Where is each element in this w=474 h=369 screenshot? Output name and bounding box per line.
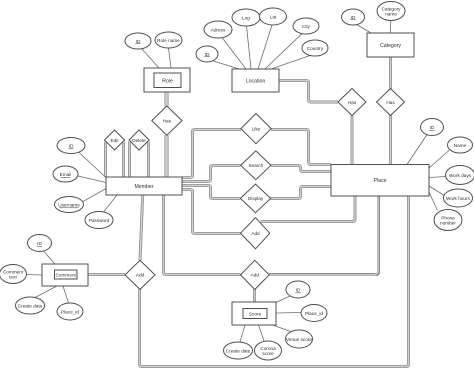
wire Has2-Place [351, 116, 354, 165]
attribute Score.PlaceId [301, 305, 327, 322]
relationship Add (Member-Place) [241, 218, 270, 249]
wire Search-Place [271, 166, 331, 172]
svg-text:Role: Role [162, 78, 173, 84]
svg-text:Like: Like [252, 126, 261, 131]
relationship Has (Category-Place) [377, 89, 405, 116]
svg-text:Delete: Delete [132, 138, 146, 143]
svg-text:ID: ID [37, 241, 42, 246]
attribute Score.CreateDate [224, 342, 253, 359]
svg-text:Place: Place [374, 178, 387, 184]
wire Place.Phone [429, 192, 438, 211]
wire Place.WorkHours [429, 186, 445, 196]
svg-text:Lat: Lat [270, 14, 277, 19]
entity Member [106, 177, 182, 195]
svg-text:Has: Has [348, 100, 357, 105]
wire Member.Password [104, 195, 118, 212]
svg-text:Search: Search [248, 163, 263, 168]
svg-text:ID: ID [296, 287, 301, 292]
svg-text:Has: Has [386, 100, 395, 105]
wire Comment.Text [27, 274, 43, 277]
svg-text:Add: Add [251, 273, 260, 278]
entity Category [367, 33, 414, 57]
attribute Score.ID [286, 281, 310, 298]
wire Member-Add1 [182, 190, 241, 234]
wire Delete loop left [128, 142, 131, 178]
svg-text:name: name [385, 11, 397, 16]
attribute Location.Country [302, 40, 328, 56]
attribute Place.WorkHours [444, 189, 473, 207]
svg-text:Country: Country [307, 46, 324, 51]
wire Has-Member [164, 135, 168, 177]
svg-text:Venue score: Venue score [286, 337, 312, 342]
svg-text:Comment: Comment [56, 273, 77, 278]
wire Member-Search [182, 166, 241, 182]
wire Add2-Score [253, 290, 256, 303]
wire Has3-Place [389, 116, 392, 165]
wire Location-Has2 [279, 81, 338, 103]
attribute Place.ID [421, 119, 444, 136]
svg-text:Lng: Lng [242, 15, 250, 20]
entity Role (weak) [144, 68, 190, 92]
entity Place [331, 165, 429, 197]
relationship Delete [129, 130, 149, 150]
wire Like-Place [271, 130, 331, 165]
attribute Member.Password [85, 212, 113, 229]
svg-text:text: text [9, 274, 17, 279]
wire Location.Adress [222, 38, 246, 70]
wire Location.ID [212, 61, 239, 70]
svg-text:Category: Category [380, 43, 401, 49]
entity Comment (weak) [42, 264, 88, 286]
wire Edit loop right [122, 142, 125, 178]
svg-text:Place_id: Place_id [305, 311, 323, 316]
wire Role.RoleName [169, 48, 172, 68]
svg-text:Score: Score [249, 312, 262, 318]
svg-text:Member: Member [134, 184, 153, 190]
attribute Comment.ID [28, 235, 52, 252]
entity Score (weak) [232, 302, 276, 325]
wire Delete loop right [147, 142, 150, 178]
wire Score.CoronaScore [259, 325, 265, 341]
wire Comment.PlaceId [63, 286, 69, 303]
svg-text:Adress: Adress [211, 27, 226, 32]
wire Location.City [265, 33, 303, 69]
wire Score.VenueScore [270, 324, 291, 332]
attribute Member.Email [53, 166, 78, 182]
svg-text:Password: Password [89, 218, 110, 223]
wire Score.ID [275, 296, 290, 303]
attribute Comment.CommentText [0, 265, 27, 284]
wire Location.Country [271, 56, 310, 70]
relationship Like [241, 114, 271, 144]
wire Score.PlaceId [276, 312, 301, 315]
svg-text:score: score [262, 351, 274, 356]
svg-text:number: number [440, 220, 456, 225]
svg-text:Role name: Role name [157, 38, 180, 43]
attribute Location.Lat [260, 8, 287, 25]
wire Place.ID [407, 135, 427, 165]
attribute Score.CoronaScore [255, 341, 282, 360]
wire Add2-Place [269, 196, 378, 275]
attribute Location.Lng [232, 9, 260, 26]
svg-text:Has: Has [163, 118, 172, 123]
wire Score.CreateDate [240, 325, 245, 342]
attribute Comment.PlaceId [57, 303, 83, 320]
svg-text:Location: Location [246, 78, 266, 84]
attribute Member.ID [57, 138, 85, 154]
wire Member.Email [78, 176, 106, 183]
svg-text:Work hours: Work hours [446, 196, 471, 201]
wire Place.WorkDays [429, 177, 446, 178]
wire Place.Name [429, 150, 450, 168]
attribute Location.Adress [204, 21, 232, 38]
wire Category.Name [389, 21, 392, 34]
attribute Place.WorkDays [446, 166, 474, 185]
wire Location.Lng [247, 26, 252, 69]
wire Member.ID [79, 153, 106, 178]
wire Member.Username [83, 189, 106, 202]
wire Comment.ID [44, 251, 56, 264]
svg-text:Add: Add [251, 231, 260, 236]
svg-text:City: City [302, 24, 311, 29]
svg-text:Work days: Work days [449, 173, 472, 178]
svg-text:Username: Username [58, 202, 80, 207]
svg-text:Place_id: Place_id [61, 309, 79, 314]
attribute Location.ID [196, 46, 218, 62]
attribute Category.CategoryName [377, 2, 405, 21]
svg-text:Name: Name [454, 143, 467, 148]
attribute Location.City [293, 18, 319, 34]
wire Display-Place [271, 187, 331, 199]
attribute Place.PhoneNumber [434, 210, 462, 231]
attribute Role.ID [125, 33, 151, 49]
wire Comment.CreateDate [35, 286, 57, 298]
wire AddL-Comment [88, 273, 125, 276]
svg-text:Edit: Edit [110, 138, 119, 143]
wire Location.Lat [258, 25, 272, 69]
attribute Category.ID [342, 9, 365, 25]
relationship Display [240, 184, 270, 213]
attribute Place.Name [448, 137, 473, 153]
wire AddL-loop-Place [140, 196, 409, 367]
entity Location [232, 69, 279, 92]
relationship Add (Member-Comment) [125, 260, 155, 289]
wire Add1-Place [261, 196, 356, 222]
svg-text:Create date: Create date [226, 348, 251, 353]
wire Category-Has3 [389, 57, 392, 89]
svg-text:Display: Display [248, 196, 264, 201]
svg-text:ID: ID [430, 125, 435, 130]
svg-text:Add: Add [136, 273, 145, 278]
attribute Score.VenueScore [286, 330, 313, 348]
relationship Search [241, 151, 271, 180]
attribute Comment.CreateDate [16, 297, 45, 314]
relationship Edit [105, 130, 125, 150]
svg-text:ID: ID [69, 143, 74, 148]
svg-text:Create date: Create date [18, 303, 43, 308]
wire Member-Like [182, 130, 241, 178]
wire Member-Display [182, 186, 240, 199]
wire Edit loop left [104, 142, 107, 178]
relationship Add (Member-Score) [241, 260, 270, 289]
wire Member-Add2 [164, 195, 241, 275]
wire Role.ID [142, 49, 160, 69]
wire Category.ID [357, 25, 372, 34]
wire Member-AddL [140, 195, 143, 260]
attribute Member.Username [55, 197, 84, 213]
relationship Has (Role-Member) [152, 106, 182, 135]
wire Role-Has [164, 92, 168, 107]
relationship Has (Location-Place) [338, 89, 366, 116]
svg-text:Email: Email [60, 172, 72, 177]
attribute Role.RoleName [155, 32, 182, 48]
